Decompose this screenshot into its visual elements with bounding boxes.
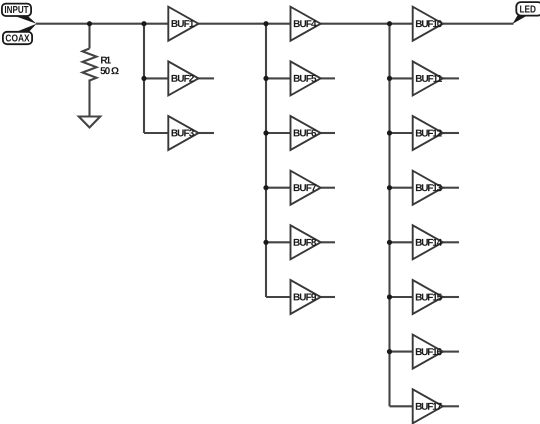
node junction bus2 row3 xyxy=(263,130,268,135)
wire BUF4 output xyxy=(321,23,413,25)
buffer BUF16 xyxy=(413,335,443,369)
buffer BUF5 xyxy=(291,61,321,95)
wire BUF11 output stub xyxy=(443,77,459,79)
wire BUF9 output stub xyxy=(321,296,335,298)
svg-text:INPUT: INPUT xyxy=(4,5,28,16)
node junction bus2 row1 xyxy=(263,21,268,26)
net flag INPUT pointer xyxy=(16,16,37,24)
svg-text:LED: LED xyxy=(520,4,537,15)
wire BUF14 input xyxy=(390,241,413,243)
wire bus column2 xyxy=(265,24,267,297)
svg-text:BUF5: BUF5 xyxy=(293,74,317,85)
node junction bus2 row2 xyxy=(263,76,268,81)
svg-text:BUF17: BUF17 xyxy=(415,402,442,413)
wire BUF8 input xyxy=(266,241,291,243)
wire BUF9 input xyxy=(266,296,291,298)
net flag COAX pointer xyxy=(17,24,37,32)
node junction bus3 row7 xyxy=(387,349,392,354)
svg-text:50 Ω: 50 Ω xyxy=(100,66,119,77)
wire main input net xyxy=(36,23,168,25)
node junction bus3 row6 xyxy=(387,294,392,299)
resistor R1 xyxy=(83,49,97,81)
buffer BUF15 xyxy=(413,280,443,314)
node junction input-resistor xyxy=(87,21,92,26)
node junction bus2 row5 xyxy=(263,240,268,245)
node junction bus1 row2 xyxy=(141,76,146,81)
buffer BUF4 xyxy=(291,7,321,41)
wire BUF2 output stub xyxy=(199,77,215,79)
net flag LED pointer xyxy=(513,15,528,24)
wire resistor to ground xyxy=(88,80,90,117)
wire BUF8 output stub xyxy=(321,241,335,243)
wire BUF2 input xyxy=(144,77,168,79)
net flag LED box xyxy=(516,2,540,16)
svg-text:BUF9: BUF9 xyxy=(293,292,317,303)
wire BUF16 input xyxy=(390,351,413,353)
svg-text:BUF8: BUF8 xyxy=(293,238,317,249)
buffer BUF10 xyxy=(413,7,443,41)
wire BUF11 input xyxy=(390,77,413,79)
buffer BUF6 xyxy=(291,116,321,150)
node junction bus3 row2 xyxy=(387,76,392,81)
wire BUF1 output xyxy=(199,23,291,25)
svg-text:BUF11: BUF11 xyxy=(415,74,442,85)
buffer BUF7 xyxy=(291,171,321,205)
wire BUF17 input xyxy=(390,405,413,407)
wire BUF3 input xyxy=(144,132,168,134)
wire BUF10 output xyxy=(443,23,514,25)
buffer BUF11 xyxy=(413,61,443,95)
buffer BUF2 xyxy=(168,61,198,95)
wire BUF6 input xyxy=(266,132,291,134)
svg-text:BUF14: BUF14 xyxy=(415,238,442,249)
wire BUF6 output stub xyxy=(321,132,335,134)
svg-text:COAX: COAX xyxy=(5,33,29,44)
buffer BUF14 xyxy=(413,225,443,259)
svg-text:BUF6: BUF6 xyxy=(293,128,317,139)
wire BUF7 output stub xyxy=(321,187,335,189)
svg-text:BUF2: BUF2 xyxy=(171,74,195,85)
svg-text:BUF3: BUF3 xyxy=(171,128,195,139)
wire bus column3 xyxy=(388,24,390,407)
net flag COAX box xyxy=(3,32,32,44)
svg-text:R1: R1 xyxy=(100,56,111,67)
wire BUF7 input xyxy=(266,187,291,189)
wire BUF17 output stub xyxy=(443,405,459,407)
svg-text:BUF16: BUF16 xyxy=(415,347,442,358)
svg-text:BUF1: BUF1 xyxy=(171,19,195,30)
wire BUF12 output stub xyxy=(443,132,459,134)
buffer BUF8 xyxy=(291,225,321,259)
wire BUF15 output stub xyxy=(443,296,459,298)
buffer BUF17 xyxy=(413,389,443,423)
wire BUF5 output stub xyxy=(321,77,335,79)
wire BUF14 output stub xyxy=(443,241,459,243)
net flag INPUT box xyxy=(2,4,31,16)
svg-text:BUF10: BUF10 xyxy=(415,19,442,30)
svg-text:BUF4: BUF4 xyxy=(293,19,317,30)
node junction bus3 row1 xyxy=(387,21,392,26)
svg-text:BUF13: BUF13 xyxy=(415,183,442,194)
node junction bus3 row4 xyxy=(387,185,392,190)
wire resistor drop xyxy=(88,24,90,49)
wire BUF15 input xyxy=(390,296,413,298)
node junction bus3 row3 xyxy=(387,130,392,135)
svg-text:BUF15: BUF15 xyxy=(415,292,442,303)
node junction bus3 row5 xyxy=(387,240,392,245)
wire BUF16 output stub xyxy=(443,351,459,353)
wire BUF13 output stub xyxy=(443,187,459,189)
wire bus column1 xyxy=(143,24,145,133)
wire BUF12 input xyxy=(390,132,413,134)
buffer BUF3 xyxy=(168,116,198,150)
svg-text:BUF12: BUF12 xyxy=(415,128,442,139)
wire BUF3 output stub xyxy=(199,132,215,134)
buffer BUF1 xyxy=(168,7,198,41)
buffer BUF12 xyxy=(413,116,443,150)
buffer BUF13 xyxy=(413,171,443,205)
buffer BUF9 xyxy=(291,280,321,314)
node junction bus1 row1 xyxy=(141,21,146,26)
ground xyxy=(79,117,100,128)
node junction bus2 row4 xyxy=(263,185,268,190)
svg-text:BUF7: BUF7 xyxy=(293,183,317,194)
wire BUF5 input xyxy=(266,77,291,79)
wire BUF13 input xyxy=(390,187,413,189)
